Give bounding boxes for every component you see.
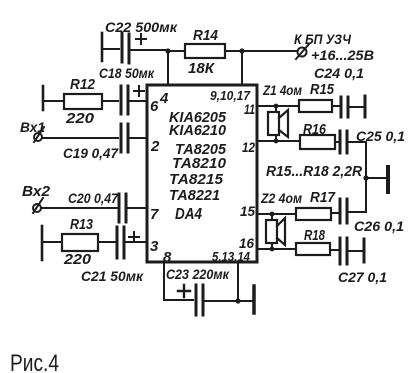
node B junction	[239, 48, 244, 53]
svg-text:Вх1: Вх1	[20, 119, 45, 135]
capacitor C19	[120, 124, 123, 152]
C27 end terminal bar	[363, 239, 366, 262]
input terminal Bx1	[34, 133, 42, 141]
svg-text:6: 6	[150, 98, 159, 115]
svg-text:С25 0,1: С25 0,1	[356, 128, 405, 144]
svg-text:К БП УЗЧ: К БП УЗЧ	[294, 31, 352, 47]
svg-text:R16: R16	[303, 121, 327, 138]
svg-text:С18 50мк: С18 50мк	[99, 65, 155, 81]
wire pin 11 to R15	[257, 105, 299, 107]
svg-text:Z2 4ом: Z2 4ом	[260, 190, 302, 206]
wire terminal to R12	[43, 100, 64, 102]
svg-text:С23 220мк: С23 220мк	[166, 266, 230, 282]
resistor R13	[62, 234, 98, 251]
wire node A down to pin 4	[167, 51, 169, 85]
wire pin 15 to R17	[257, 213, 296, 215]
svg-text:5,13,14: 5,13,14	[212, 249, 251, 264]
node speaker Z2 top junction	[270, 212, 275, 217]
wire node A to R14	[168, 50, 185, 52]
svg-text:220: 220	[65, 110, 95, 127]
svg-text:С26 0,1: С26 0,1	[354, 218, 404, 234]
svg-text:DA4: DA4	[175, 206, 202, 223]
wire junction up to pins 5,13,14	[237, 262, 239, 301]
supply terminal circle	[298, 48, 307, 57]
ground terminal bar bottom	[252, 286, 256, 313]
wire pin 8 to C23	[164, 299, 193, 301]
wire R14 to node B	[225, 50, 242, 52]
wire R12 to C18	[102, 100, 118, 102]
svg-text:R12: R12	[70, 76, 96, 93]
resistor R13 left terminal bar	[41, 226, 44, 260]
svg-text:С21 50мк: С21 50мк	[81, 268, 144, 284]
wire pin 16 to R18	[257, 248, 296, 250]
capacitor C27	[339, 238, 342, 264]
wire R15 to C24	[332, 105, 339, 107]
svg-text:Z1 4ом: Z1 4ом	[262, 82, 302, 98]
wire R16 to C25	[335, 141, 338, 143]
wire C21 to pin 3	[126, 241, 147, 243]
svg-text:2: 2	[150, 138, 160, 155]
speaker Z2	[271, 214, 273, 249]
wire bus to ground bar	[366, 177, 385, 179]
wire C22 to node A	[131, 49, 168, 51]
wire C24 to end bar	[350, 106, 363, 108]
wire Bx2 to C20	[41, 207, 117, 209]
wire C22 terminal to C22	[102, 48, 119, 50]
op-amp IC DA4 body	[147, 85, 257, 262]
svg-text:С22 500мк: С22 500мк	[105, 19, 178, 35]
wire C23 to ground bar	[205, 300, 252, 302]
svg-text:11: 11	[244, 101, 255, 117]
wire terminal to R13	[42, 241, 62, 243]
capacitor C20	[118, 194, 121, 222]
wire node B to supply terminal	[242, 50, 297, 52]
resistor R18	[296, 243, 330, 255]
capacitor C23	[195, 285, 198, 315]
input terminal Bx2	[33, 204, 41, 212]
capacitor C22 left terminal bar	[101, 33, 104, 61]
capacitor C18	[120, 86, 123, 114]
svg-text:KIA6210: KIA6210	[169, 122, 227, 139]
capacitor C26	[339, 199, 342, 223]
resistor R12	[64, 94, 102, 109]
resistor R14	[185, 44, 225, 58]
capacitor C22	[121, 33, 124, 62]
svg-text:3: 3	[150, 238, 159, 255]
svg-text:15: 15	[240, 203, 255, 219]
svg-text:12: 12	[242, 139, 255, 155]
svg-text:С24 0,1: С24 0,1	[314, 65, 364, 81]
node pins 5,13,14 junction	[235, 298, 240, 303]
svg-text:R17: R17	[310, 189, 336, 206]
node bus to ground junction	[363, 175, 368, 180]
wire R13 to C21	[98, 241, 115, 243]
wire C27 to end bar	[349, 250, 362, 252]
svg-text:+16...25В: +16...25В	[311, 47, 374, 63]
wire Bx1 to C19	[42, 137, 118, 139]
C24 end terminal bar	[364, 96, 367, 117]
svg-text:4: 4	[159, 90, 169, 107]
resistor R16	[300, 135, 335, 149]
svg-text:С19 0,47: С19 0,47	[63, 145, 119, 161]
wire C25 to bus	[349, 141, 366, 143]
wire right vertical bus	[365, 142, 367, 212]
C18 polarity plus	[134, 86, 144, 96]
node speaker Z1 bottom junction	[274, 139, 279, 144]
capacitor C24	[340, 97, 343, 117]
svg-text:18К: 18К	[188, 60, 216, 77]
svg-text:С27 0,1: С27 0,1	[338, 269, 387, 285]
svg-text:R15...R18 2,2R: R15...R18 2,2R	[266, 163, 362, 180]
svg-text:Вх2: Вх2	[22, 183, 51, 200]
resistor R12 left terminal bar	[42, 86, 45, 110]
resistor R17	[296, 208, 331, 220]
wire C18 to pin 6	[130, 100, 147, 102]
node A junction	[165, 48, 170, 53]
svg-text:ТА8221: ТА8221	[169, 187, 220, 204]
resistor R15	[299, 100, 332, 112]
svg-text:ТА8210: ТА8210	[172, 155, 227, 172]
svg-text:7: 7	[150, 206, 159, 223]
svg-text:Рис.4: Рис.4	[10, 350, 59, 373]
svg-text:R13: R13	[70, 216, 94, 233]
capacitor C21	[116, 227, 119, 258]
svg-text:С20 0,47: С20 0,47	[68, 190, 119, 206]
capacitor C25	[339, 131, 342, 153]
svg-text:220: 220	[63, 251, 92, 268]
speaker Z1	[275, 106, 277, 141]
wire C20 to pin 7	[128, 207, 147, 209]
svg-text:R15: R15	[310, 81, 335, 98]
C21 polarity plus	[129, 232, 139, 242]
wire R18 to C27	[330, 249, 338, 251]
wire C19 to pin 2	[130, 137, 147, 139]
wire node B down to pins 9,10,17	[241, 51, 243, 85]
node speaker Z2 bottom junction	[270, 247, 275, 252]
svg-text:ТА8215: ТА8215	[169, 171, 224, 188]
C23 polarity plus	[178, 285, 190, 297]
svg-text:R14: R14	[193, 27, 219, 44]
svg-text:8: 8	[163, 249, 172, 266]
wire C26 up to bus	[349, 211, 366, 213]
node speaker Z1 top junction	[274, 104, 279, 109]
wire pin 8 down	[163, 262, 165, 300]
ground terminal bar	[386, 167, 390, 192]
wire pin 12 to R16	[257, 140, 300, 142]
svg-text:R18: R18	[304, 227, 325, 244]
C22 polarity plus	[136, 34, 146, 44]
wire R17 to C26	[331, 212, 338, 214]
